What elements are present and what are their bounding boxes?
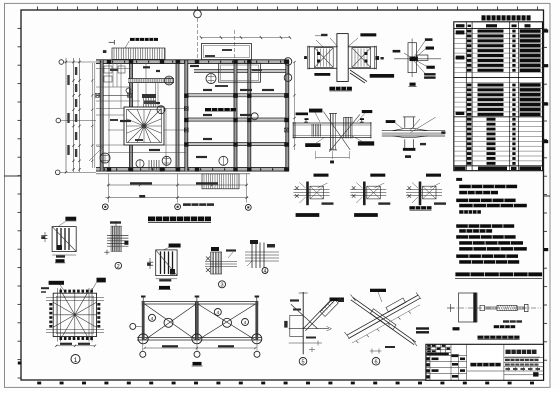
plan column blobs on beams bbox=[107, 60, 289, 172]
right border thick fold marks bbox=[544, 29, 548, 32]
table title text bbox=[482, 15, 531, 20]
plan dense cluster a bbox=[142, 94, 156, 98]
truss joint circle middle bbox=[192, 334, 202, 344]
title block frame bbox=[426, 344, 544, 380]
truss grid bubble 1 bbox=[140, 351, 146, 357]
truss label 1-1 bbox=[193, 362, 202, 365]
bottom border thick fold marks bbox=[37, 382, 534, 385]
detail column section 1 label 1-1 bbox=[56, 259, 65, 262]
detail small-brace at x=307 bbox=[294, 174, 334, 206]
detail B leaders bbox=[315, 113, 320, 123]
notes text lines bbox=[459, 185, 517, 189]
plan upper-right open rectangle 2 bbox=[219, 63, 261, 82]
title block signature fills bbox=[427, 345, 450, 356]
plan bottom dimension lines bbox=[107, 184, 247, 186]
detail 4 splice plan bbox=[245, 240, 279, 268]
bolt detail flange bar bbox=[473, 293, 476, 323]
plan grid bubble 3 bottom bbox=[245, 205, 251, 211]
title block small rows bbox=[505, 359, 539, 361]
truss grid bubble 2 bbox=[194, 351, 200, 357]
plan column line 7 right wall bbox=[286, 60, 289, 171]
detail 1 base plate plan bbox=[46, 278, 106, 347]
title block left rows bbox=[426, 344, 467, 380]
plan inner dim lines left bbox=[91, 63, 93, 168]
detail 1-1 label bbox=[410, 83, 416, 86]
svg-text:5: 5 bbox=[301, 360, 304, 366]
svg-text:4: 4 bbox=[216, 310, 219, 316]
plan small circle top-left bbox=[126, 88, 131, 93]
plan bolt circle f bbox=[219, 156, 228, 165]
stair hatch band top-left bbox=[112, 48, 165, 59]
plan bolt tick marks along beams bbox=[100, 61, 285, 171]
detail 6 label circle bbox=[372, 358, 380, 366]
plan dense cluster b bbox=[144, 101, 156, 105]
plan beam row3 bbox=[185, 94, 290, 97]
plan vertical hatch near bottom beam bbox=[149, 160, 159, 170]
table header text bbox=[456, 24, 465, 27]
truss elevation bbox=[137, 296, 262, 350]
plan interior thin beams left part bbox=[96, 63, 186, 167]
top border tick marks bbox=[38, 7, 538, 10]
plan grid bubble C left bbox=[55, 170, 60, 175]
left border thick mark bbox=[18, 362, 22, 365]
detail column section 3 label bbox=[159, 286, 170, 289]
plan grid bubble 1 bottom bbox=[102, 204, 108, 210]
right fold line bbox=[544, 195, 551, 197]
detail 1 label circle bbox=[71, 355, 80, 364]
plan bolt circle h bbox=[136, 160, 144, 168]
plan bottom beam bbox=[96, 168, 289, 172]
plan title text bbox=[148, 217, 211, 222]
detail 6 cross brace connection bbox=[338, 289, 429, 354]
plan bolt circle b bbox=[206, 74, 216, 84]
plan grid bubble B left bbox=[56, 118, 61, 123]
bolt detail rod bbox=[480, 304, 528, 311]
plan column line 2 bbox=[130, 60, 133, 171]
plan micro dims extra bbox=[110, 69, 118, 71]
plan column line 1 bbox=[100, 60, 103, 171]
plan main top beam bbox=[96, 60, 289, 64]
plan right end grid bubbles bbox=[284, 58, 292, 66]
plan bolt circle a bbox=[165, 76, 174, 85]
plan upper-right open rectangle 1 bbox=[202, 43, 252, 59]
truss left leader circle bbox=[130, 323, 136, 329]
truss grid bubble 3 bbox=[254, 351, 260, 357]
notes last line bbox=[455, 272, 542, 276]
title block signature grid bbox=[426, 344, 451, 355]
plan column line 4 bbox=[176, 60, 179, 171]
table summary row bbox=[455, 167, 466, 171]
table body text bbox=[467, 29, 541, 165]
plan connection squares bbox=[96, 93, 289, 132]
truss detail circle b bbox=[223, 318, 232, 327]
detail 1-1 section bbox=[393, 38, 441, 79]
notes bottom rule bbox=[455, 278, 542, 280]
detail 2 label circle bbox=[115, 262, 122, 269]
right border tick marks bbox=[544, 29, 547, 360]
title block right dividers bbox=[467, 344, 544, 380]
label above title block bbox=[478, 336, 520, 339]
svg-text:4: 4 bbox=[244, 320, 247, 326]
bolt detail labels bbox=[453, 327, 460, 330]
stair left arrow mark bbox=[109, 41, 115, 43]
plan column line 5 bbox=[185, 60, 188, 171]
truss joint circle left bbox=[138, 334, 148, 344]
plan column line 6b bbox=[248, 60, 251, 171]
detail small-brace at x=420 bbox=[406, 174, 446, 206]
detail 5 brace connection bbox=[284, 292, 344, 354]
plan grid line x=234.6 bbox=[234, 30, 236, 60]
plan top dimension line bbox=[201, 37, 290, 39]
plan bolt circle d bbox=[251, 113, 258, 120]
detail 3 label circle bbox=[219, 281, 226, 288]
bolt detail column rect bbox=[459, 293, 478, 322]
title block drawing number bbox=[506, 350, 537, 354]
plan beam row2 right bbox=[194, 69, 289, 72]
left border tick marks bbox=[18, 28, 21, 378]
plan bolt circle c bbox=[157, 106, 165, 114]
weld marks left of base plate bbox=[41, 287, 49, 289]
svg-text:3: 3 bbox=[220, 283, 223, 289]
svg-text:6: 6 bbox=[374, 360, 377, 366]
plan hatched splice beam bbox=[128, 79, 174, 83]
member schedule table bbox=[454, 22, 543, 171]
detail A column-beam joint bbox=[304, 33, 394, 83]
plan small connection rects top-left bbox=[104, 66, 125, 82]
detail small-brace at x=364 bbox=[350, 174, 390, 206]
stair label text bbox=[130, 38, 158, 41]
plan bolt circle g bbox=[100, 153, 110, 163]
detail A label bbox=[329, 87, 352, 91]
svg-text:1: 1 bbox=[74, 357, 78, 364]
detail 2 welded mesh bbox=[104, 221, 128, 255]
plan diagonal leader bottom-left bbox=[89, 147, 103, 161]
title block drawing title text bbox=[470, 363, 500, 367]
plan beam row4 bbox=[185, 118, 290, 121]
plan left dimension lines bbox=[65, 58, 67, 172]
table col1 merged labels bbox=[456, 30, 465, 34]
plan grid bubble top bbox=[194, 10, 202, 18]
plan bolt circle e bbox=[162, 156, 171, 165]
truss detail circle d bbox=[214, 309, 221, 316]
plan right dimension line bbox=[294, 62, 296, 150]
detail 3 gusset weld bbox=[205, 247, 237, 274]
plan beam row5 bbox=[185, 143, 290, 146]
truss detail circle a bbox=[164, 318, 173, 327]
detail 4 label circle bbox=[262, 268, 268, 274]
detail B beam splice elevation bbox=[293, 112, 372, 164]
detail B text bars bbox=[309, 109, 322, 113]
plan grid line from top bubble bbox=[197, 18, 199, 60]
detail column section 3 bbox=[147, 244, 181, 282]
bolt detail left tick bbox=[450, 304, 452, 312]
truss joint circle right bbox=[252, 334, 262, 344]
plan radial fan square bbox=[124, 107, 164, 145]
plan column line 3 bbox=[108, 63, 110, 167]
underline bars below small details bbox=[296, 213, 320, 217]
left fold line bbox=[4, 175, 21, 177]
plan grid bubble A left bbox=[59, 60, 64, 65]
plan grid bubble 2 bottom bbox=[175, 204, 181, 210]
truss detail circle e bbox=[242, 319, 249, 326]
detail 5 label circle bbox=[299, 358, 307, 366]
label under third small detail bbox=[409, 206, 431, 209]
plan bottom-right stair hatch band bbox=[202, 174, 239, 189]
plan beam spec label bbox=[205, 108, 236, 111]
svg-text:4: 4 bbox=[151, 316, 154, 322]
bolt detail center line bbox=[450, 307, 541, 309]
plan column line 6 bbox=[234, 60, 237, 171]
detail C cross plan view bbox=[382, 117, 446, 158]
detail column section 1 bbox=[41, 217, 76, 258]
notes heading bbox=[456, 178, 462, 181]
plan micro text blobs bbox=[143, 66, 150, 68]
plan bottom right small text bbox=[183, 203, 214, 206]
svg-text:2: 2 bbox=[117, 264, 120, 270]
svg-text:4: 4 bbox=[264, 269, 267, 275]
truss detail circle c bbox=[149, 314, 156, 321]
